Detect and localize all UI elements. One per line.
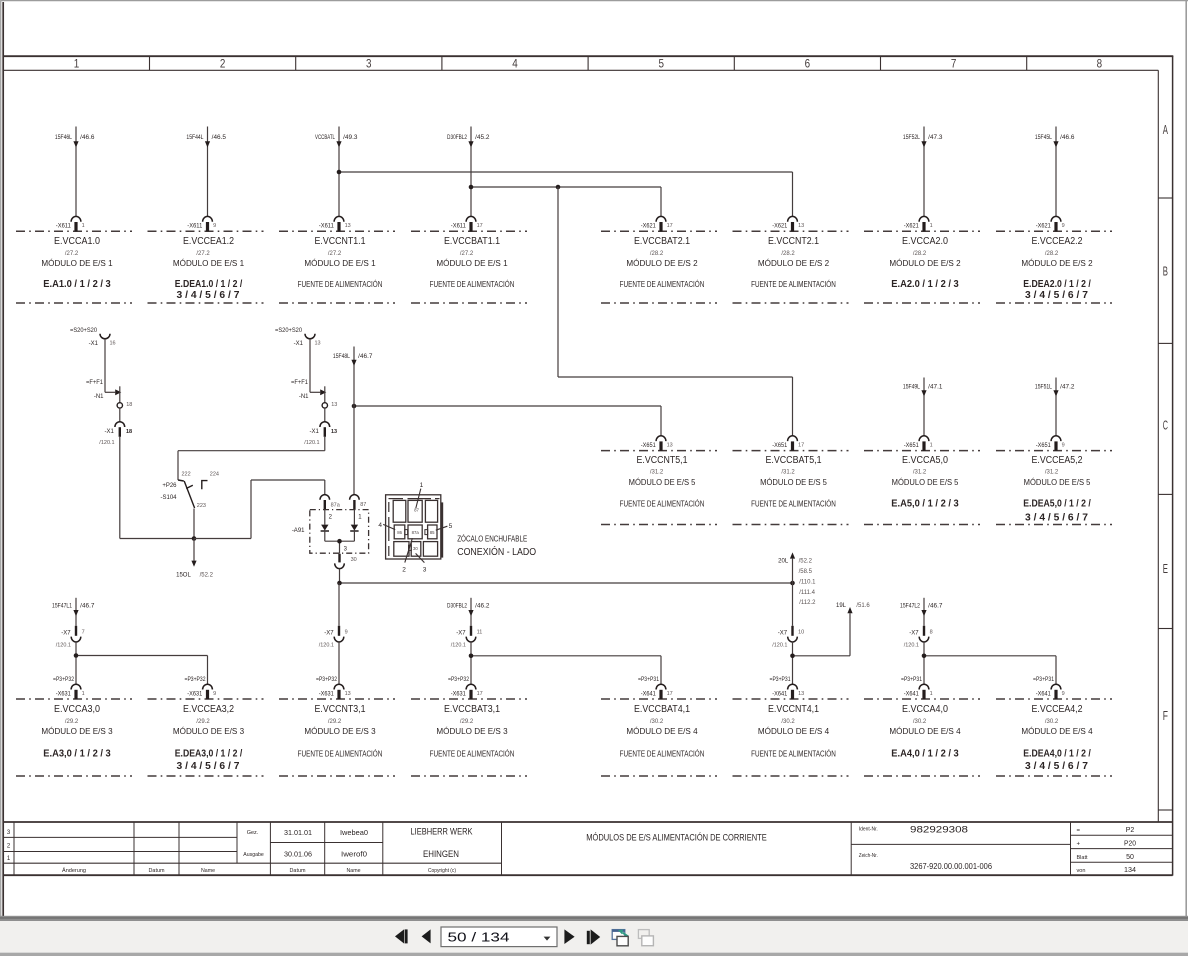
svg-text:30: 30	[351, 557, 357, 563]
wire switch 223 to node	[193, 509, 195, 539]
svg-text:=S20+S20: =S20+S20	[70, 328, 98, 334]
svg-text:MÓDULO DE E/S 2: MÓDULO DE E/S 2	[626, 259, 698, 268]
svg-text:MÓDULO DE E/S 1: MÓDULO DE E/S 1	[173, 259, 245, 268]
svg-text:-X611: -X611	[56, 224, 72, 230]
svg-text:E.DEA5,0 / 1 / 2 /: E.DEA5,0 / 1 / 2 /	[1023, 498, 1091, 510]
svg-text:MÓDULO DE E/S 3: MÓDULO DE E/S 3	[304, 727, 376, 736]
svg-text:-X621: -X621	[904, 224, 920, 230]
svg-text:/28.2: /28.2	[1045, 251, 1059, 257]
svg-text:-X1: -X1	[104, 429, 114, 435]
svg-text:E.VCCEA4,2: E.VCCEA4,2	[1032, 704, 1083, 715]
svg-text:30: 30	[413, 546, 418, 551]
svg-text:E.A4,0 / 1 / 2 / 3: E.A4,0 / 1 / 2 / 3	[891, 747, 959, 759]
svg-text:EHINGEN: EHINGEN	[423, 849, 459, 859]
svg-text:LIEBHERR WERK: LIEBHERR WERK	[411, 827, 473, 837]
svg-text:224: 224	[210, 472, 219, 478]
svg-text:7: 7	[951, 56, 957, 70]
svg-text:8: 8	[930, 630, 933, 636]
connector -X631 pin 9	[185, 677, 217, 699]
svg-text:/27.2: /27.2	[460, 251, 474, 257]
module boundary dash-dot row A/B bottom	[16, 302, 1112, 304]
wire 30-bus to X631.13	[338, 583, 340, 626]
toolbar next view icon (disabled)	[638, 930, 653, 946]
svg-text:-X651: -X651	[772, 443, 788, 449]
svg-text:D30FBL2: D30FBL2	[447, 135, 467, 141]
row letter band	[1158, 123, 1172, 810]
svg-text:P2: P2	[1126, 827, 1135, 834]
column index band	[74, 56, 1103, 70]
wire 20L to X7.10	[792, 583, 794, 626]
svg-text:87: 87	[360, 502, 366, 508]
svg-text:/52.2: /52.2	[799, 559, 813, 565]
wire 15F48L	[333, 347, 373, 496]
diode V2 (87)	[350, 510, 362, 541]
viewer toolbar	[0, 916, 1188, 956]
svg-text:Datum: Datum	[149, 868, 165, 874]
svg-text:E.DEA4,0 / 1 / 2 /: E.DEA4,0 / 1 / 2 /	[1023, 747, 1091, 759]
svg-text:-X621: -X621	[772, 224, 788, 230]
connector -X611 pin 13	[319, 216, 351, 231]
node junction X7.7	[74, 653, 79, 658]
node junction X7.11	[469, 654, 474, 659]
svg-text:E.VCCA5,0: E.VCCA5,0	[902, 455, 948, 466]
svg-text:=P3+P32: =P3+P32	[53, 677, 75, 683]
svg-text:-X651: -X651	[641, 443, 657, 449]
toolbar page number box	[441, 927, 557, 947]
svg-text:/31.2: /31.2	[781, 470, 795, 476]
svg-text:/28.2: /28.2	[650, 251, 664, 257]
wire source 15F51L	[1035, 378, 1075, 437]
svg-text:E: E	[1163, 562, 1168, 576]
node junction 15OL	[192, 536, 197, 541]
svg-text:Copyright (c): Copyright (c)	[428, 868, 456, 874]
module label E.VCCNT4,1	[751, 704, 836, 758]
diode V1 (87a)	[321, 510, 333, 541]
svg-text:Ident-Nr.: Ident-Nr.	[859, 827, 878, 833]
connector -X631 pin 13	[316, 677, 351, 699]
node junction row E left	[337, 581, 342, 586]
module boundary dash-dot row F bottom	[16, 775, 1112, 777]
svg-text:E.VCCBAT1.1: E.VCCBAT1.1	[444, 236, 500, 247]
toolbar previous view icon	[612, 930, 628, 946]
svg-text:F: F	[1163, 709, 1168, 723]
svg-text:9: 9	[213, 691, 216, 697]
module label E.VCCA4,0	[889, 704, 961, 759]
connector -X641 pin 17	[638, 677, 673, 699]
svg-text:-X611: -X611	[187, 224, 203, 230]
toolbar previous page button	[422, 929, 431, 943]
svg-text:MÓDULO DE E/S 2: MÓDULO DE E/S 2	[889, 259, 961, 268]
node junction to row C	[556, 185, 561, 190]
connector X7 pin 7	[56, 626, 85, 649]
svg-text:D30FBL2: D30FBL2	[447, 604, 467, 610]
toolbar first page button	[395, 929, 408, 943]
svg-text:A: A	[1163, 123, 1169, 137]
svg-text:5: 5	[658, 56, 664, 70]
title block company	[411, 827, 473, 874]
svg-text:13: 13	[345, 691, 351, 697]
svg-text:=: =	[1077, 828, 1081, 834]
svg-text:13: 13	[331, 429, 337, 435]
svg-text:15F52L: 15F52L	[903, 135, 921, 141]
connector X7 pin 9	[319, 626, 348, 649]
connector -X621 pin 13	[772, 216, 804, 231]
svg-text:134: 134	[1124, 867, 1136, 874]
svg-text:/120.1: /120.1	[451, 642, 466, 648]
svg-text:/111.4: /111.4	[799, 590, 815, 596]
svg-text:=S20+S20: =S20+S20	[275, 328, 303, 334]
svg-text:MÓDULO DE E/S 5: MÓDULO DE E/S 5	[892, 478, 959, 487]
wire X7.11 to X641.17	[471, 642, 661, 685]
svg-text:50: 50	[1126, 854, 1134, 861]
toolbar last page button	[587, 929, 600, 944]
node junction VCCBATL	[337, 170, 342, 175]
svg-text:von: von	[1077, 868, 1086, 874]
svg-text:4: 4	[512, 56, 518, 70]
svg-text:223: 223	[197, 503, 206, 509]
node junction D30FBL2	[469, 185, 474, 190]
svg-text:3 / 4 / 5 / 6 / 7: 3 / 4 / 5 / 6 / 7	[1025, 511, 1088, 523]
svg-text:/52.2: /52.2	[200, 572, 214, 578]
svg-text:/29.2: /29.2	[65, 719, 79, 725]
label zocalo enchufable	[457, 534, 536, 558]
module label E.VCCEA5,2	[1023, 455, 1091, 523]
svg-text:/46.6: /46.6	[1060, 135, 1075, 141]
title block	[3, 822, 1173, 875]
svg-text:-X651: -X651	[904, 443, 920, 449]
device N1 terminal 13	[291, 380, 337, 408]
svg-text:E.DEA3,0 / 1 / 2 /: E.DEA3,0 / 1 / 2 /	[175, 747, 243, 759]
svg-text:E.VCCBAT5,1: E.VCCBAT5,1	[765, 455, 821, 466]
svg-text:FUENTE DE ALIMENTACIÓN: FUENTE DE ALIMENTACIÓN	[751, 500, 836, 509]
svg-text:11: 11	[477, 630, 483, 636]
module boundary dash-dot row C top	[601, 450, 1112, 452]
svg-text:13: 13	[315, 341, 321, 347]
connector -X641 pin 1	[901, 677, 933, 699]
wire stub 15OL off-page	[176, 539, 213, 579]
svg-text:Blatt: Blatt	[1077, 855, 1089, 861]
svg-text:Iwerof0: Iwerof0	[341, 849, 367, 858]
svg-text:/28.2: /28.2	[781, 251, 795, 257]
svg-text:-X621: -X621	[1036, 224, 1052, 230]
connector -X651 pin 13	[641, 436, 673, 451]
svg-text:2: 2	[220, 56, 226, 70]
svg-text:/28.2: /28.2	[913, 251, 927, 257]
svg-text:18: 18	[126, 429, 132, 435]
svg-text:/45.2: /45.2	[475, 135, 490, 141]
node junction 20L	[790, 581, 795, 586]
svg-text:13: 13	[331, 402, 337, 408]
svg-text:15F47L1: 15F47L1	[52, 604, 73, 610]
svg-text:/30.2: /30.2	[1045, 719, 1059, 725]
svg-text:31.01.01: 31.01.01	[284, 828, 312, 837]
svg-text:E.VCCEA2.2: E.VCCEA2.2	[1032, 236, 1083, 247]
svg-text:1: 1	[82, 223, 85, 229]
svg-text:1: 1	[930, 223, 933, 229]
svg-text:/120.1: /120.1	[56, 642, 71, 648]
connector X7 pin 8	[904, 626, 933, 649]
svg-text:/46.2: /46.2	[475, 604, 490, 610]
module label E.VCCNT3,1	[298, 704, 383, 758]
svg-text:MÓDULO DE E/S 4: MÓDULO DE E/S 4	[889, 727, 961, 736]
module label E.VCCA2.0	[889, 236, 961, 290]
svg-text:=P3+P32: =P3+P32	[448, 677, 470, 683]
wire source 15F47L2	[900, 598, 943, 626]
svg-text:20L: 20L	[778, 559, 789, 565]
svg-text:9: 9	[1062, 223, 1065, 229]
module label E.VCCBAT2.1	[620, 236, 705, 289]
svg-text:87a: 87a	[331, 503, 341, 509]
node junction 15F48L	[352, 404, 357, 409]
svg-text:MÓDULO DE E/S 2: MÓDULO DE E/S 2	[1021, 259, 1093, 268]
svg-text:E.VCCEA1.2: E.VCCEA1.2	[183, 236, 234, 247]
wire bus VCCBATL to X621.13	[339, 172, 793, 217]
svg-text:/120.1: /120.1	[304, 440, 319, 446]
connector -X611 pin 17	[451, 216, 483, 231]
svg-text:MÓDULO DE E/S 1: MÓDULO DE E/S 1	[41, 259, 113, 268]
title block drawing title	[586, 832, 767, 842]
svg-text:6: 6	[805, 56, 811, 70]
svg-text:/30.2: /30.2	[650, 719, 664, 725]
svg-text:-N1: -N1	[299, 394, 309, 400]
svg-text:/120.1: /120.1	[904, 642, 919, 648]
module label E.VCCBAT1.1	[430, 236, 515, 289]
svg-text:/58.5: /58.5	[799, 569, 813, 575]
svg-text:/46.6: /46.6	[80, 135, 95, 141]
svg-text:MÓDULO DE E/S 3: MÓDULO DE E/S 3	[41, 727, 113, 736]
svg-text:E.A1.0 / 1 / 2 / 3: E.A1.0 / 1 / 2 / 3	[43, 278, 111, 290]
connector -X641 pin 13	[770, 677, 805, 699]
svg-text:/46.7: /46.7	[358, 354, 373, 360]
svg-text:13: 13	[667, 443, 673, 449]
svg-text:/47.2: /47.2	[1060, 385, 1075, 391]
wire source D30FBL2 row E	[447, 598, 490, 626]
svg-text:13: 13	[798, 223, 804, 229]
module boundary dash-dot row F top	[16, 698, 1112, 700]
svg-text:17: 17	[667, 223, 673, 229]
svg-text:FUENTE DE ALIMENTACIÓN: FUENTE DE ALIMENTACIÓN	[430, 749, 515, 758]
connector -X611 pin 9	[187, 216, 216, 231]
svg-text:-X7: -X7	[456, 630, 466, 636]
connector X7 pin 10	[772, 626, 804, 649]
svg-text:E.VCCNT1.1: E.VCCNT1.1	[315, 236, 366, 247]
svg-text:/29.2: /29.2	[460, 719, 474, 725]
svg-text:-X611: -X611	[319, 224, 335, 230]
svg-text:9: 9	[213, 223, 216, 229]
svg-text:85: 85	[430, 530, 435, 535]
wire stub 19L off-page	[836, 603, 870, 656]
svg-text:3: 3	[366, 56, 372, 70]
svg-text:C: C	[1163, 419, 1168, 433]
svg-text:-X631: -X631	[187, 691, 203, 697]
wire X7.9 down	[338, 642, 340, 685]
svg-text:1: 1	[420, 482, 424, 489]
wire source 15F47L1	[52, 598, 95, 626]
svg-text:3267-920.00.00.001-006: 3267-920.00.00.001-006	[910, 862, 993, 871]
svg-text:/47.1: /47.1	[928, 385, 943, 391]
svg-text:Änderung: Änderung	[62, 867, 86, 874]
svg-text:222: 222	[182, 472, 191, 478]
svg-text:FUENTE DE ALIMENTACIÓN: FUENTE DE ALIMENTACIÓN	[298, 749, 383, 758]
svg-text:FUENTE DE ALIMENTACIÓN: FUENTE DE ALIMENTACIÓN	[620, 500, 705, 509]
svg-text:/31.2: /31.2	[913, 470, 927, 476]
svg-text:30.01.06: 30.01.06	[284, 849, 312, 858]
svg-text:-X7: -X7	[778, 630, 788, 636]
module boundary dash-dot row C bottom	[601, 524, 1112, 526]
connector -X641 pin 9	[1033, 677, 1065, 699]
svg-text:MÓDULO DE E/S 5: MÓDULO DE E/S 5	[1024, 478, 1091, 487]
svg-text:86: 86	[397, 530, 402, 535]
svg-text:=F+F1: =F+F1	[86, 380, 104, 386]
module label E.VCCEA1.2	[173, 236, 245, 301]
connector X1 socket =S20+S20 left	[70, 328, 116, 347]
connector -X651 pin 9	[1036, 436, 1065, 451]
svg-text:-X641: -X641	[641, 691, 657, 697]
toolbar next page button	[564, 929, 574, 944]
svg-text:-X7: -X7	[61, 630, 71, 636]
svg-text:MÓDULO DE E/S 3: MÓDULO DE E/S 3	[436, 727, 508, 736]
svg-text:/112.2: /112.2	[799, 600, 816, 606]
svg-text:Name: Name	[201, 868, 215, 874]
svg-text:3 / 4 / 5 / 6 / 7: 3 / 4 / 5 / 6 / 7	[1025, 289, 1088, 301]
svg-text:/27.2: /27.2	[196, 251, 210, 257]
svg-text:/31.2: /31.2	[650, 470, 664, 476]
module label E.VCCA5,0	[891, 455, 959, 509]
svg-text:-X1: -X1	[89, 341, 99, 347]
svg-text:E.VCCNT4,1: E.VCCNT4,1	[768, 704, 819, 715]
svg-text:E.A5,0 / 1 / 2 / 3: E.A5,0 / 1 / 2 / 3	[891, 498, 959, 510]
svg-text:MÓDULO DE E/S 5: MÓDULO DE E/S 5	[629, 478, 696, 487]
svg-text:15F51L: 15F51L	[1035, 385, 1053, 391]
svg-text:/27.2: /27.2	[328, 251, 342, 257]
title block sheet table	[1077, 827, 1137, 874]
svg-text:-X641: -X641	[1036, 691, 1052, 697]
wire source 15F45L	[1035, 127, 1075, 217]
svg-text:15F49L: 15F49L	[903, 385, 921, 391]
svg-text:E.VCCNT2.1: E.VCCNT2.1	[768, 236, 819, 247]
svg-text:E.VCCBAT3,1: E.VCCBAT3,1	[444, 704, 500, 715]
svg-text:/120.1: /120.1	[319, 642, 334, 648]
wire source 15F49L	[903, 378, 943, 437]
svg-text:-X641: -X641	[904, 691, 920, 697]
wire bus to X651.17	[558, 187, 793, 436]
wire X1.13 branch	[310, 339, 320, 393]
svg-text:3: 3	[423, 567, 427, 574]
svg-text:-X7: -X7	[324, 630, 334, 636]
svg-text:2: 2	[402, 567, 406, 574]
svg-text:FUENTE DE ALIMENTACIÓN: FUENTE DE ALIMENTACIÓN	[751, 280, 836, 289]
svg-text:MÓDULO DE E/S 5: MÓDULO DE E/S 5	[760, 478, 827, 487]
svg-text:3 / 4 / 5 / 6 / 7: 3 / 4 / 5 / 6 / 7	[177, 289, 240, 301]
svg-text:MÓDULOS DE E/S ALIMENTACIÓN DE: MÓDULOS DE E/S ALIMENTACIÓN DE CORRIENTE	[586, 832, 767, 842]
svg-text:/30.2: /30.2	[781, 719, 795, 725]
svg-text:3 / 4 / 5 / 6 / 7: 3 / 4 / 5 / 6 / 7	[177, 760, 240, 772]
svg-text:13: 13	[798, 691, 804, 697]
title block revision rows	[7, 830, 215, 874]
diode module A91 box	[292, 510, 369, 554]
svg-text:E.VCCBAT4,1: E.VCCBAT4,1	[634, 704, 690, 715]
node junction diode common	[337, 539, 342, 544]
svg-text:B: B	[1163, 265, 1168, 279]
wire X1.13 to switch S104	[178, 437, 325, 480]
connector -X621 pin 9	[1036, 216, 1065, 231]
connector -X651 pin 17	[772, 436, 804, 451]
svg-text:FUENTE DE ALIMENTACIÓN: FUENTE DE ALIMENTACIÓN	[620, 280, 705, 289]
svg-text:Iwebea0: Iwebea0	[340, 828, 368, 837]
svg-text:+P26: +P26	[162, 483, 177, 489]
svg-text:17: 17	[667, 691, 673, 697]
wire 30 to node row E	[339, 569, 341, 583]
svg-text:E.VCCA3,0: E.VCCA3,0	[54, 704, 100, 715]
svg-text:3 / 4 / 5 / 6 / 7: 3 / 4 / 5 / 6 / 7	[1025, 760, 1088, 772]
svg-text:-X641: -X641	[772, 691, 788, 697]
svg-text:/29.2: /29.2	[328, 719, 342, 725]
svg-text:-X1: -X1	[309, 429, 319, 435]
connector -X631 pin 1	[53, 677, 85, 699]
svg-text:-N1: -N1	[94, 394, 104, 400]
wire X7.7 to X631.1	[76, 642, 208, 685]
wire bus row E (30 to 20L)	[340, 582, 793, 584]
svg-text:15F45L: 15F45L	[1035, 135, 1053, 141]
svg-text:/120.1: /120.1	[99, 440, 114, 446]
svg-text:P20: P20	[1124, 841, 1136, 848]
svg-text:87a: 87a	[412, 530, 420, 535]
svg-text:15F46L: 15F46L	[55, 135, 73, 141]
module label E.VCCA3,0	[41, 704, 113, 759]
svg-text:1: 1	[74, 56, 80, 70]
svg-text:19L: 19L	[836, 603, 847, 609]
svg-text:Datum: Datum	[290, 868, 306, 874]
svg-text:FUENTE DE ALIMENTACIÓN: FUENTE DE ALIMENTACIÓN	[298, 280, 383, 289]
connector -X651 pin 1	[904, 436, 933, 451]
node junction X7.10	[790, 654, 795, 659]
svg-text:-S104: -S104	[160, 495, 177, 501]
svg-text:17: 17	[798, 443, 804, 449]
module label E.VCCNT5,1	[620, 455, 705, 508]
module boundary dash-dot row A/B top	[16, 230, 1112, 232]
svg-text:MÓDULO DE E/S 3: MÓDULO DE E/S 3	[173, 727, 245, 736]
svg-text:15OL: 15OL	[176, 572, 191, 578]
svg-text:-X631: -X631	[319, 691, 335, 697]
module label E.VCCA1.0	[41, 236, 113, 290]
svg-text:10: 10	[798, 630, 804, 636]
wire diode common	[325, 541, 355, 553]
svg-text:E.VCCA4,0: E.VCCA4,0	[902, 704, 948, 715]
svg-text:1: 1	[930, 443, 933, 449]
title block ident numbers	[859, 824, 993, 871]
svg-text:1: 1	[82, 691, 85, 697]
svg-text:/51.6: /51.6	[856, 603, 870, 609]
svg-text:4: 4	[378, 522, 382, 529]
svg-text:MÓDULO DE E/S 4: MÓDULO DE E/S 4	[758, 727, 830, 736]
wire X7.10 to X641.13 and 19L	[793, 642, 851, 685]
svg-text:9: 9	[345, 630, 348, 636]
module label E.VCCBAT3,1	[430, 704, 515, 758]
wire bus 15F48L to X651.13	[354, 406, 661, 436]
connector -X621 pin 1	[904, 216, 933, 231]
relay socket drawing (zocalo enchufable)	[378, 482, 452, 573]
svg-text:1: 1	[930, 691, 933, 697]
connector -X611 pin 1	[56, 216, 85, 231]
svg-text:VCCBATL: VCCBATL	[315, 135, 335, 141]
svg-text:E.VCCNT5,1: E.VCCNT5,1	[637, 455, 688, 466]
wire source 15F44L	[186, 127, 226, 217]
wire node to relay 87a	[194, 480, 325, 539]
svg-text:9: 9	[1062, 691, 1065, 697]
svg-text:=P3+P31: =P3+P31	[770, 677, 792, 683]
svg-text:FUENTE DE ALIMENTACIÓN: FUENTE DE ALIMENTACIÓN	[751, 749, 836, 758]
wire source 15F46L	[55, 127, 95, 217]
